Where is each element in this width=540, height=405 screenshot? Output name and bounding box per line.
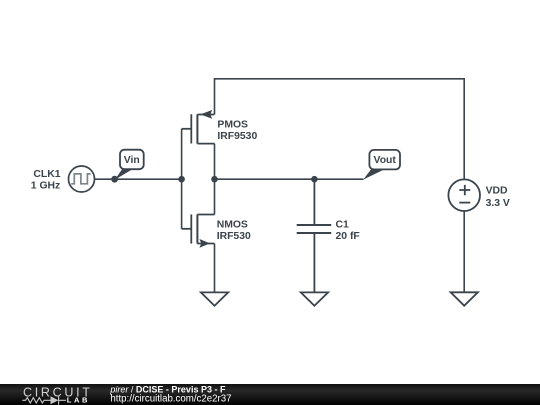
wire PMOS drain to NMOS drain bbox=[214, 144, 216, 215]
svg-text:C1: C1 bbox=[336, 219, 350, 230]
junction dot gate node bbox=[178, 176, 185, 183]
svg-text:VDD: VDD bbox=[486, 186, 508, 197]
svg-text:NMOS: NMOS bbox=[217, 219, 248, 230]
wire clock to gate junction bbox=[95, 178, 182, 180]
label C1 20 fF bbox=[336, 219, 360, 242]
footer bar bbox=[0, 384, 540, 405]
clock source CLK1 bbox=[69, 166, 95, 192]
svg-text:1 GHz: 1 GHz bbox=[31, 181, 60, 192]
junction dot drain node bbox=[211, 176, 218, 183]
wire NMOS source to ground bbox=[214, 244, 216, 293]
svg-text:http://circuitlab.com/c2e2r37: http://circuitlab.com/c2e2r37 bbox=[110, 394, 231, 405]
node Vout flag bbox=[363, 150, 400, 180]
label CLK1 1 GHz bbox=[31, 169, 61, 191]
wire output node bbox=[215, 178, 364, 180]
svg-text:Vout: Vout bbox=[374, 155, 397, 166]
junction dot capacitor tap bbox=[311, 176, 318, 183]
ground under capacitor bbox=[301, 292, 328, 305]
svg-text:IRF530: IRF530 bbox=[217, 231, 251, 242]
svg-text:IRF9530: IRF9530 bbox=[217, 131, 257, 142]
label VDD 3.3 V bbox=[486, 186, 510, 209]
label PMOS IRF9530 bbox=[217, 119, 257, 142]
svg-text:PMOS: PMOS bbox=[217, 119, 248, 130]
svg-text:20 fF: 20 fF bbox=[336, 231, 360, 242]
svg-text:LAB: LAB bbox=[67, 396, 90, 405]
wire VDD source to ground bbox=[463, 211, 465, 292]
ground under VDD bbox=[451, 292, 478, 305]
node Vin flag bbox=[115, 150, 144, 180]
label NMOS IRF530 bbox=[217, 219, 251, 241]
svg-text:CLK1: CLK1 bbox=[33, 169, 60, 180]
junction dot at Vin tap bbox=[111, 176, 118, 183]
svg-text:Vin: Vin bbox=[124, 155, 140, 166]
transistor M1 NMOS bbox=[182, 214, 215, 247]
footer logo resistor-diode glyph bbox=[22, 396, 66, 405]
capacitor C1 bbox=[297, 179, 332, 292]
ground under NMOS bbox=[201, 292, 228, 305]
voltage source V1 VDD bbox=[448, 179, 480, 211]
svg-text:3.3 V: 3.3 V bbox=[486, 198, 510, 209]
wire top rail to VDD bbox=[215, 79, 465, 180]
wire gate vertical bbox=[181, 129, 183, 229]
transistor M2 PMOS bbox=[182, 110, 215, 144]
